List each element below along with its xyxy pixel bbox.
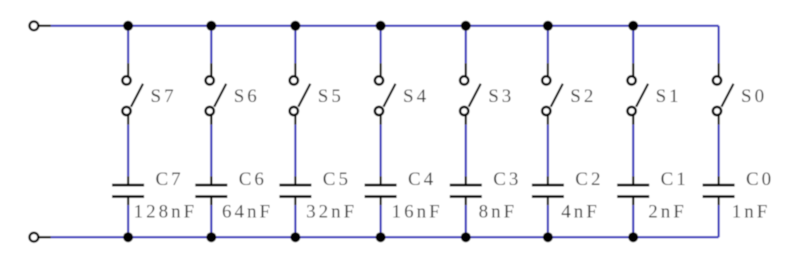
svg-text:S6: S6 (234, 86, 260, 107)
svg-text:S4: S4 (403, 86, 429, 107)
svg-text:S3: S3 (488, 86, 514, 107)
svg-text:32nF: 32nF (306, 201, 357, 222)
svg-text:C3: C3 (493, 169, 521, 190)
svg-text:C6: C6 (239, 169, 267, 190)
svg-text:2nF: 2nF (648, 201, 687, 222)
svg-text:8nF: 8nF (479, 201, 518, 222)
svg-text:64nF: 64nF (222, 201, 273, 222)
svg-text:S7: S7 (151, 86, 177, 107)
svg-text:C1: C1 (661, 169, 689, 190)
svg-text:C7: C7 (156, 169, 184, 190)
svg-text:C0: C0 (746, 169, 774, 190)
svg-text:4nF: 4nF (561, 201, 600, 222)
svg-text:C4: C4 (408, 169, 436, 190)
svg-text:S2: S2 (570, 86, 596, 107)
svg-text:1nF: 1nF (732, 201, 771, 222)
svg-text:16nF: 16nF (392, 201, 443, 222)
svg-text:C2: C2 (575, 169, 603, 190)
svg-text:C5: C5 (323, 169, 351, 190)
svg-text:S1: S1 (656, 86, 682, 107)
svg-text:S0: S0 (741, 86, 767, 107)
svg-text:S5: S5 (318, 86, 344, 107)
svg-text:128nF: 128nF (134, 201, 198, 222)
